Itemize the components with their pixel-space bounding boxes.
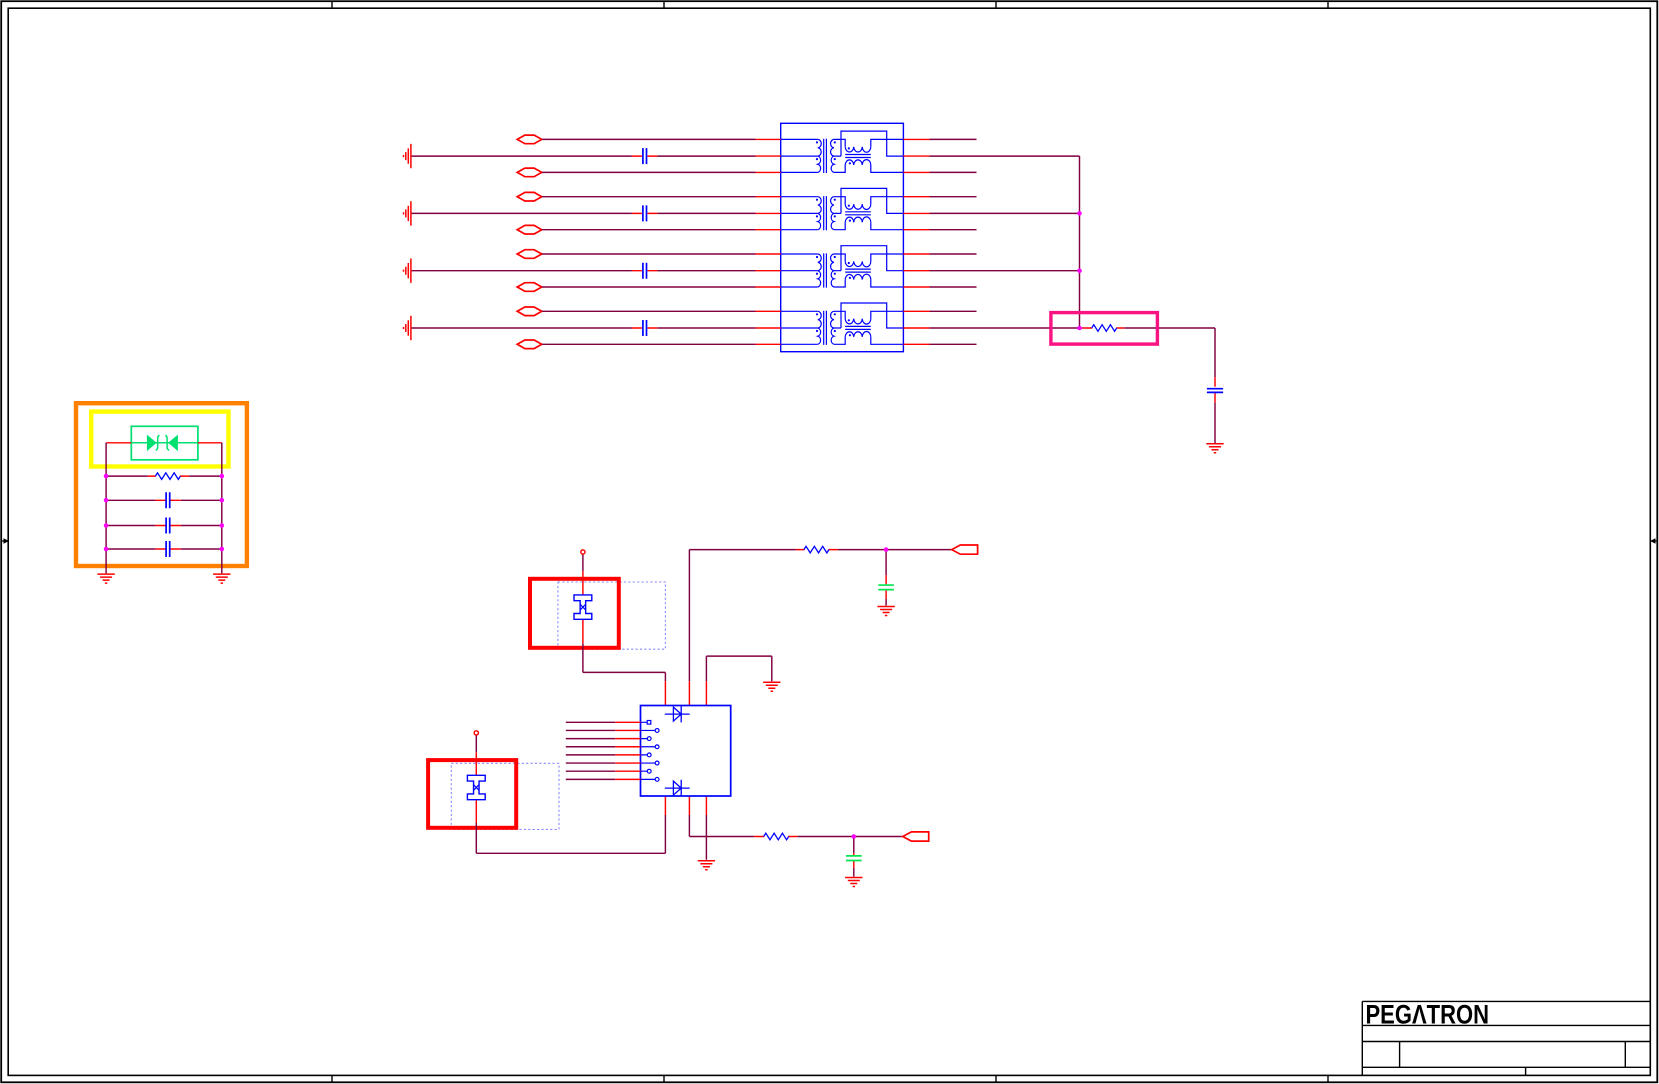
svg-text:PEGΛTRON: PEGΛTRON: [1366, 1000, 1490, 1030]
